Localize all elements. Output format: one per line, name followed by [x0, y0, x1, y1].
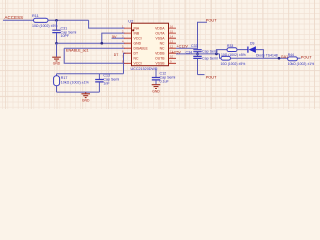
- wire upper branch: [216, 50, 227, 54]
- svg-text:Cap Semi: Cap Semi: [202, 56, 218, 60]
- svg-text:10Ω (1002) ±5%: 10Ω (1002) ±5%: [32, 24, 58, 28]
- wire to POUT bottom: [198, 74, 205, 76]
- wire down to VCCI pin8 row: [64, 48, 124, 63]
- wire GND row into IC pin4: [57, 42, 125, 44]
- svg-text:VCCI: VCCI: [134, 62, 142, 66]
- svg-text:VSSB: VSSB: [155, 62, 165, 66]
- right pin numbers: [170, 24, 174, 63]
- resistor R11: [32, 14, 58, 28]
- svg-text:R11: R11: [32, 14, 39, 18]
- svg-text:Cap Semi: Cap Semi: [202, 49, 218, 53]
- left pin stubs: [124, 28, 132, 63]
- resistor R17: [54, 74, 90, 92]
- right pin names: [155, 27, 165, 66]
- capacitor C12: [152, 69, 176, 84]
- svg-text:DT: DT: [114, 53, 119, 57]
- diode D9: [248, 42, 278, 58]
- svg-text:13: 13: [170, 40, 174, 44]
- svg-text:GND: GND: [152, 89, 160, 93]
- svg-text:GND: GND: [82, 99, 90, 103]
- svg-text:VDDA: VDDA: [155, 27, 165, 31]
- left pin names: [134, 27, 149, 66]
- svg-text:14: 14: [170, 35, 174, 39]
- op-amp U1: [122, 18, 176, 71]
- grid: [0, 0, 1, 1]
- svg-text:0.1uF: 0.1uF: [160, 79, 170, 83]
- capacitor C34: [186, 50, 218, 74]
- ground (C12): [152, 85, 161, 89]
- svg-text:10PF: 10PF: [61, 34, 70, 38]
- svg-text:C34: C34: [186, 50, 193, 54]
- node junction at C31 top: [55, 19, 58, 22]
- wire 5V stub into VCCI pin3: [112, 37, 125, 39]
- sheet background: [0, 0, 320, 109]
- wire VDDB +C12V: [176, 47, 198, 49]
- svg-text:POUT: POUT: [206, 18, 217, 23]
- wire R33 to diode: [237, 49, 248, 51]
- wire bottom rail: [57, 91, 100, 93]
- resistor R44: [288, 53, 314, 66]
- svg-text:POUT: POUT: [301, 54, 312, 59]
- svg-text:OUTB: OUTB: [155, 57, 165, 61]
- svg-text:Diode TS4148: Diode TS4148: [256, 54, 278, 58]
- svg-text:UCC21520DWR: UCC21520DWR: [131, 67, 158, 71]
- wire R34 to GA1 node: [231, 57, 288, 59]
- resistor R34: [221, 56, 246, 65]
- wire R44 to POUT: [297, 57, 300, 59]
- svg-text:NC: NC: [160, 42, 165, 46]
- svg-text:VCCI: VCCI: [134, 37, 142, 41]
- wire lower branch: [220, 54, 222, 58]
- left pin numbers: [122, 24, 124, 63]
- svg-text:OUTA: OUTA: [155, 32, 165, 36]
- svg-text:+C12V: +C12V: [177, 45, 189, 49]
- svg-text:ENABLE_ac1: ENABLE_ac1: [66, 49, 89, 53]
- wire ACCESS to R11: [3, 19, 35, 21]
- svg-text:NC: NC: [134, 57, 139, 61]
- svg-text:INA: INA: [134, 27, 140, 31]
- wire ENABLE into DISABLE pin: [64, 47, 124, 49]
- svg-text:VDDB: VDDB: [155, 52, 165, 56]
- svg-text:10Ω (1002) ±5%: 10Ω (1002) ±5%: [221, 62, 246, 66]
- node junction GA1: [278, 57, 281, 60]
- svg-text:VSSA: VSSA: [155, 37, 165, 41]
- wire R11 to corner: [48, 19, 89, 21]
- svg-text:INB: INB: [134, 32, 140, 36]
- svg-text:GND: GND: [134, 42, 142, 46]
- svg-text:10: 10: [170, 55, 174, 59]
- ground (C31): [52, 57, 61, 61]
- node junction on GND row: [100, 42, 103, 45]
- node junction riser x OUTB row: [196, 53, 199, 56]
- svg-text:DISABLE: DISABLE: [134, 47, 149, 51]
- svg-text:15: 15: [170, 29, 174, 33]
- svg-text:+C5V: +C5V: [172, 50, 182, 54]
- node junction split: [215, 53, 218, 56]
- svg-text:5V: 5V: [112, 35, 117, 39]
- svg-text:GND: GND: [53, 61, 61, 65]
- svg-text:10kΩ (1002) ±1%: 10kΩ (1002) ±1%: [288, 62, 314, 66]
- svg-text:POUT: POUT: [206, 75, 217, 80]
- svg-text:ACCESS: ACCESS: [5, 15, 24, 20]
- svg-text:12: 12: [170, 45, 174, 49]
- capacitor C31: [52, 20, 76, 43]
- wire diode rejoin: [256, 50, 264, 59]
- wire OUTB row: [176, 53, 220, 55]
- wire POUT top: [198, 22, 208, 48]
- svg-text:U2: U2: [128, 18, 134, 23]
- svg-text:NC: NC: [160, 47, 165, 51]
- wire top rail: [57, 73, 124, 75]
- ground (RC): [81, 92, 90, 98]
- node junction GND row: [55, 42, 58, 45]
- svg-text:D9: D9: [250, 42, 254, 46]
- wire INB tied to GND row: [102, 33, 125, 43]
- svg-text:1nF: 1nF: [103, 81, 110, 85]
- right pin stubs: [169, 28, 177, 63]
- wire DT pin to bottom RC: [124, 53, 126, 73]
- resistor R33: [221, 44, 246, 57]
- svg-text:16: 16: [170, 24, 174, 28]
- wire stair into INB: [89, 20, 125, 28]
- wire C31 to ground: [56, 43, 58, 57]
- capacitor C13: [95, 73, 119, 92]
- svg-text:C33: C33: [191, 44, 198, 48]
- svg-text:10kΩ (1002) ±1%: 10kΩ (1002) ±1%: [61, 80, 90, 84]
- capacitor C33: [191, 44, 218, 54]
- svg-text:DT: DT: [134, 52, 139, 56]
